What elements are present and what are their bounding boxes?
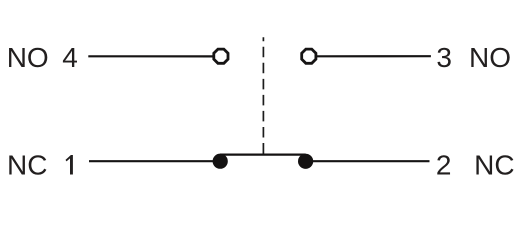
wire: NO right lead — [317, 55, 431, 57]
svg-text:NC: NC — [7, 149, 47, 180]
svg-text:2: 2 — [436, 149, 452, 180]
wire: NC left lead — [89, 160, 216, 162]
pin 1 — [66, 155, 73, 175]
svg-text:4: 4 — [62, 42, 78, 73]
NC contact terminal right (filled dot) — [298, 154, 313, 169]
NO contact fixed terminal left (open circle) — [214, 49, 228, 63]
NO contact fixed terminal right (open circle) — [302, 49, 316, 63]
wire: NO left lead — [88, 55, 214, 57]
actuator link (dashed line) — [262, 37, 264, 153]
svg-text:NO: NO — [7, 42, 49, 73]
NC movable bridge contact bar — [220, 154, 306, 156]
svg-text:NO: NO — [469, 42, 511, 73]
svg-text:3: 3 — [436, 42, 452, 73]
svg-text:NC: NC — [474, 149, 514, 180]
wire: NC right lead — [310, 160, 430, 162]
NC contact terminal left (filled dot) — [213, 154, 228, 169]
